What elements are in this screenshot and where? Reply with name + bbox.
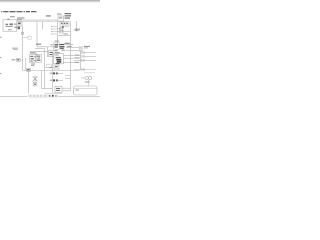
label right of terminals	[84, 46, 90, 48]
component below F1	[18, 27, 21, 30]
dark dot near stub box	[62, 26, 64, 28]
connector block CN1	[60, 22, 69, 27]
wire drop x76.5	[76, 21, 78, 32]
stub wires left of x57.5	[52, 26, 58, 28]
pin row 2	[81, 56, 83, 58]
K3 dark cluster	[50, 41, 65, 52]
stub box 1	[60, 27, 64, 30]
JB interior marks	[30, 54, 40, 62]
label above K2	[57, 13, 62, 16]
wire h y35.5	[58, 35, 71, 37]
wire drop x37	[36, 22, 38, 47]
top window edge gradient	[0, 0, 100, 3]
fan motor M1 box	[33, 82, 37, 86]
wire drop x42.5	[42, 22, 44, 30]
pin row 1	[81, 52, 83, 54]
wire h y78.2	[65, 77, 71, 79]
wire v x63	[62, 29, 64, 32]
twin circles component	[85, 76, 88, 79]
switch box S1	[49, 50, 55, 56]
wire h y70.5	[23, 70, 81, 72]
label cluster right of K2	[65, 13, 72, 19]
bottom divider line	[0, 95, 100, 98]
box 5A	[55, 86, 62, 92]
title text line	[1, 11, 37, 12]
5A box interior	[56, 88, 60, 91]
junction box JB2	[37, 54, 42, 62]
relay box K2	[58, 16, 64, 21]
fuse pair 2	[50, 79, 58, 81]
fan box interior	[34, 84, 36, 85]
condenser inner label	[76, 89, 80, 92]
wire drop x57.5	[57, 22, 59, 45]
wire h y47.6	[66, 47, 79, 49]
blower resistor cluster lines	[64, 54, 75, 56]
relay K3	[54, 43, 60, 49]
wire long drop x22.5	[22, 26, 24, 71]
tick marks page edge	[0, 37, 2, 74]
wire h y50.6	[66, 50, 79, 52]
J1 interior marks	[6, 19, 17, 30]
label above J1	[10, 15, 15, 18]
wire h y93.7	[45, 93, 63, 95]
S1 interior	[50, 52, 53, 55]
condenser rounded outline	[74, 86, 98, 95]
junction node on x22.5	[21, 32, 23, 34]
wire h y46.8	[37, 46, 58, 48]
inline component on wire	[27, 68, 31, 71]
wire drop x25.8	[25, 58, 27, 71]
wire h y44.6	[64, 44, 74, 46]
wire h y48.4	[35, 47, 45, 49]
wire h y31.5	[58, 31, 71, 33]
fuse pair 2 lead	[58, 79, 63, 81]
wire top bus A	[17, 19, 58, 21]
faint box x46.5	[47, 64, 52, 67]
terminal circle T1	[79, 47, 81, 49]
blower dark cluster	[55, 55, 61, 65]
branch h y37.6	[23, 37, 29, 39]
W5 interior and label	[50, 66, 58, 68]
wire v x52.5	[52, 52, 54, 93]
K2 interior	[59, 17, 62, 18]
label above y35.5	[64, 33, 69, 36]
marks below JB	[31, 64, 35, 66]
wire v x88.5	[88, 80, 90, 86]
connector J1 housing	[3, 20, 17, 31]
label above blower	[55, 51, 60, 54]
wire lead R1	[20, 59, 23, 61]
fuse pair 1 lead	[58, 72, 63, 74]
wire h y88.5	[42, 88, 53, 90]
terminal circle T2	[79, 50, 81, 52]
toolbar buttons	[30, 95, 57, 97]
wire right bus	[70, 22, 72, 92]
wire v x41.5	[41, 71, 43, 89]
labels right of blower lines	[75, 55, 80, 63]
label TXV	[46, 15, 51, 16]
wire h y67.6	[45, 67, 55, 69]
arcs row y72.8	[84, 72, 95, 74]
fuse pair 1	[50, 72, 58, 74]
wire drop x44.5	[44, 48, 46, 88]
pin row 4	[81, 69, 83, 71]
stub tick dots	[50, 26, 53, 34]
wire drop x47.5	[47, 47, 49, 57]
inline component interior	[27, 69, 29, 70]
R1 interior and label	[12, 59, 20, 60]
wire h y88.2	[62, 87, 71, 89]
JB drop x33.8	[33, 63, 35, 67]
wire v x80.5	[80, 52, 82, 70]
label B+	[17, 18, 25, 20]
label A/C amp	[65, 43, 72, 47]
label x75	[75, 29, 81, 31]
wire top bus B	[19, 21, 60, 23]
F1 interior	[18, 23, 21, 25]
CN1 pins	[61, 23, 68, 25]
wire h y90.8	[62, 90, 71, 92]
toolbar pill	[28, 94, 59, 98]
wire h y75.2	[65, 74, 71, 76]
fuse box F1	[17, 21, 22, 26]
branch box	[28, 36, 31, 39]
small box W5	[54, 65, 59, 69]
junction box JB1	[30, 54, 36, 62]
label above JB	[30, 52, 36, 53]
resistor block R1	[17, 58, 21, 61]
wire h y51.6	[30, 51, 49, 53]
wire v x28.5	[28, 72, 30, 94]
blower box	[54, 53, 64, 63]
wire h y28.5	[58, 28, 64, 30]
stub box 2	[60, 31, 64, 33]
fan motor M1 blades	[33, 76, 38, 81]
label mid-left	[12, 48, 18, 50]
label y43.5	[36, 44, 41, 45]
label below twin circles	[85, 81, 90, 84]
pin row 3	[81, 60, 83, 62]
